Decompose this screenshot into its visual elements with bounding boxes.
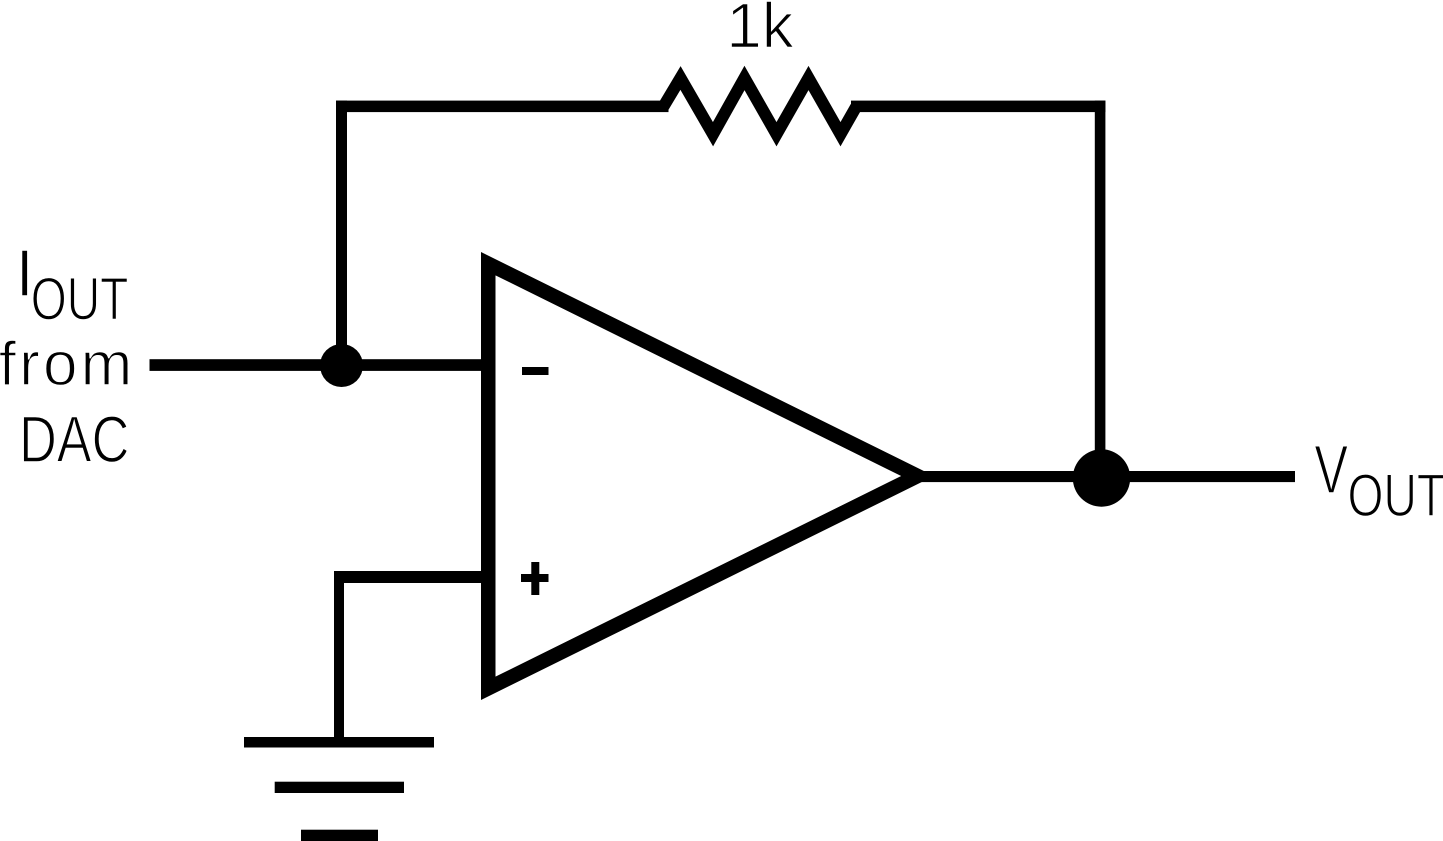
wire: feedback left vertical — [336, 101, 347, 366]
op-amp U1 triangle — [488, 264, 917, 689]
wire: input from DAC to inverting input — [150, 359, 482, 371]
wire: non-inverting input stub — [334, 571, 482, 583]
svg-text:from: from — [0, 330, 132, 399]
pin label: non-inverting input plus — [521, 574, 549, 582]
wire: feedback right vertical — [1095, 101, 1106, 479]
wire: feedback top horizontal, left segment — [336, 101, 669, 113]
ground symbol bar 1 — [244, 737, 434, 748]
svg-text:V: V — [1314, 432, 1348, 508]
node: input junction dot — [320, 344, 363, 387]
wire: output — [918, 471, 1295, 482]
resistor R1 zigzag — [664, 78, 857, 134]
node: output junction dot — [1073, 449, 1130, 506]
ground symbol bar 3 — [301, 830, 378, 841]
svg-text:1k: 1k — [726, 0, 795, 61]
wire: feedback top horizontal, right segment — [851, 101, 1105, 113]
svg-text:OUT: OUT — [31, 265, 129, 333]
ground symbol bar 2 — [275, 782, 404, 793]
svg-text:DAC: DAC — [19, 403, 129, 477]
pin label: inverting input minus — [522, 367, 549, 375]
svg-text:OUT: OUT — [1348, 461, 1443, 529]
wire: ground leg vertical — [334, 577, 344, 742]
